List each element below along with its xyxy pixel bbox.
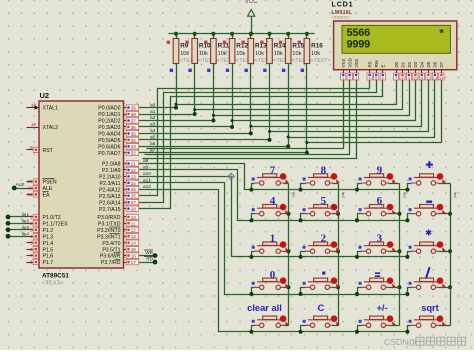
svg-text:P1.1/T2EX: P1.1/T2EX [43,221,69,227]
svg-text:3: 3 [377,233,383,245]
lcd pin stubs and numbers [341,70,444,81]
wire net a2 [137,32,410,123]
svg-text:P3.6/WR: P3.6/WR [100,254,121,260]
svg-text:P2.7/A15: P2.7/A15 [99,207,120,213]
wire net lcd RS (P2.5) [137,81,370,196]
push button 6 (row 2 col 3) [355,195,400,222]
svg-text:1: 1 [342,76,344,80]
svg-text:VDD: VDD [348,58,353,67]
wire net lcd VEE [143,81,357,159]
svg-text:a12: a12 [143,184,151,190]
wire net a3 [137,32,416,129]
svg-text:P0.3/AD3: P0.3/AD3 [98,125,120,131]
svg-text:D6: D6 [433,61,438,67]
resistor R9 [167,39,200,73]
svg-text:PSEN: PSEN [43,180,57,186]
svg-text:11: 11 [131,221,136,226]
svg-text:27: 27 [131,200,137,205]
svg-text:P1.3: P1.3 [43,234,54,240]
svg-text:36: 36 [131,125,137,130]
lcd LCD1 LM016L [332,0,457,70]
svg-text:RST: RST [43,148,54,154]
push button slash (row 4 col 4) [405,267,450,296]
wire net a7 [137,32,442,155]
wire net a4 [137,32,422,136]
svg-text:10k: 10k [199,51,208,57]
svg-text:22: 22 [131,168,137,173]
resistor R14 [260,39,293,73]
svg-text:lie2: lie2 [341,192,345,198]
svg-text:a2: a2 [150,115,156,121]
resistor R10 [185,39,218,73]
svg-text:VEE: VEE [354,59,359,68]
svg-text:3: 3 [30,227,33,232]
svg-text:P1.4: P1.4 [43,241,54,247]
svg-text:11: 11 [420,76,424,80]
svg-text:16: 16 [131,254,137,259]
resistor R15 [279,39,312,73]
svg-text:26: 26 [131,194,137,199]
wire net lie3 [6,225,30,232]
lcd pin names [341,58,444,67]
svg-text:8: 8 [401,76,403,80]
wire keypad column rail lie1 [287,184,296,326]
U2 left pin stubs and numbers [27,103,40,265]
svg-text:D0: D0 [394,61,399,67]
svg-text:P3.4/T0: P3.4/T0 [102,241,120,247]
svg-text:33: 33 [131,144,137,149]
push button equals (row 4 col 3) [355,273,400,296]
svg-text:a3: a3 [150,122,156,128]
wire net lcd RW (P2.6) [137,81,377,203]
svg-text:5: 5 [321,195,327,207]
U2 right pin stubs and numbers [124,105,139,265]
svg-text:5: 5 [375,76,377,80]
wire keypad column rail lie2 [336,184,345,326]
U2 left pin names [43,106,69,266]
svg-text:30: 30 [27,186,33,191]
svg-text:17: 17 [131,260,137,265]
svg-text:10: 10 [413,76,417,80]
svg-text:10k: 10k [311,51,320,57]
svg-text:R16: R16 [311,43,323,50]
svg-text:P2.5/A13: P2.5/A13 [99,194,120,200]
svg-text:lie4: lie4 [22,231,30,236]
svg-text:P0.5/AD5: P0.5/AD5 [98,138,120,144]
svg-text:5566: 5566 [346,28,370,40]
VCC power symbol [245,0,258,36]
push button 7 (row 1 col 1) [249,165,289,192]
svg-text:D7: D7 [439,61,444,67]
svg-text:10k: 10k [255,51,264,57]
svg-text:32: 32 [131,151,137,156]
svg-text:D3: D3 [413,61,418,67]
svg-text:10: 10 [131,215,137,220]
svg-text:23: 23 [131,174,137,179]
svg-text:a10: a10 [143,171,151,177]
wire net a10 (keypad row 3) [137,171,408,256]
svg-text:P2.0/A8: P2.0/A8 [102,162,121,168]
wire net RD [137,256,158,264]
svg-text:RD: RD [146,257,153,262]
wire net lcd VDD [145,81,350,155]
svg-text:P3.7/RD: P3.7/RD [101,260,121,266]
svg-text:6: 6 [382,76,384,80]
wire net a1 [137,32,403,116]
push button plus (row 1 col 4) [405,161,450,192]
push button sqrt (row 5 col 4) [405,303,450,334]
svg-text:P0.1/AD1: P0.1/AD1 [98,112,120,118]
push button clear-all (row 5 col 1) [247,303,289,334]
svg-text:EA: EA [43,193,50,199]
svg-text:14: 14 [131,241,137,246]
wire net lcd VSS [147,81,344,149]
svg-text:D4: D4 [420,61,425,67]
svg-text:14: 14 [439,76,443,80]
svg-text:a6: a6 [150,141,156,147]
wire net a11 (keypad row 4) [137,178,408,295]
svg-text:24: 24 [131,181,137,186]
svg-text:18: 18 [31,122,37,127]
svg-text:10k: 10k [236,51,245,57]
svg-text:8: 8 [321,165,327,177]
resistor R16 [298,39,331,73]
wire net a8 (keypad row 1) [137,158,408,189]
svg-text:5: 5 [30,240,33,245]
watermark [384,337,466,347]
svg-text:ALE: ALE [16,182,25,188]
svg-text:a8: a8 [143,158,149,164]
svg-text:a11: a11 [143,178,151,184]
wire net a0 [137,32,397,110]
svg-text:35: 35 [131,131,137,136]
svg-text:P2.2/A10: P2.2/A10 [99,175,120,181]
VCC bus wire [169,33,315,35]
svg-text:a0: a0 [150,102,156,108]
svg-text:lie4: lie4 [453,192,457,198]
wire net lcd E (P2.7) [137,81,383,209]
svg-text:P0.4/AD4: P0.4/AD4 [98,132,120,138]
svg-text:P1.5: P1.5 [43,247,54,253]
svg-text:7: 7 [30,253,33,258]
svg-text:a5: a5 [150,135,156,141]
svg-text:25: 25 [131,187,137,192]
svg-text:CSDN: CSDN [384,337,408,347]
svg-text:3: 3 [355,76,357,80]
svg-text:4: 4 [270,195,276,207]
push button 8 (row 1 col 2) [299,165,340,192]
svg-text:U2: U2 [40,91,50,100]
svg-text:34: 34 [131,138,137,143]
svg-text:38: 38 [131,112,137,117]
svg-text:*: * [438,29,445,41]
svg-text:P0.7/AD7: P0.7/AD7 [98,151,120,157]
wire net a12 (keypad row 5) [137,184,408,332]
wire net ALE [12,182,27,190]
svg-text:13: 13 [131,234,137,239]
push button 3 (row 3 col 3) [355,233,400,259]
svg-text:P1.0/T2: P1.0/T2 [43,215,61,221]
svg-text:9999: 9999 [346,39,370,51]
svg-text:LM016L: LM016L [332,10,353,16]
svg-text:2: 2 [349,76,351,80]
svg-text:P2.1/A9: P2.1/A9 [102,168,121,174]
svg-text:VSS: VSS [341,59,346,68]
svg-text:37: 37 [131,118,137,123]
svg-text:9: 9 [408,76,410,80]
svg-text:D2: D2 [407,61,412,67]
svg-text:39: 39 [131,106,137,111]
svg-text:7: 7 [270,165,276,177]
svg-text:lie1: lie1 [292,192,296,198]
push button C (row 5 col 2) [299,303,340,334]
push button star (row 3 col 4) [405,230,450,259]
svg-text:clear all: clear all [247,303,282,313]
mcu U2 AT89C51 [39,91,124,287]
svg-text:12: 12 [426,76,430,80]
svg-text:C: C [318,303,325,313]
svg-text:ALE: ALE [43,186,53,192]
svg-text:P1.2: P1.2 [43,228,54,234]
svg-text:29: 29 [27,179,33,184]
wire keypad column rail lie3 [397,184,406,326]
svg-text:13: 13 [433,76,437,80]
node junction marker [228,173,235,180]
push button 0 (row 4 col 1) [249,269,289,296]
svg-text:D5: D5 [426,61,431,67]
svg-text:E: E [381,65,386,68]
svg-text:RW: RW [374,59,379,67]
svg-text:VCC: VCC [245,0,258,5]
svg-text:P2.6/A14: P2.6/A14 [99,200,120,206]
svg-text:6: 6 [30,247,33,252]
svg-text:a4: a4 [150,128,156,134]
svg-text:P0.0/AD0: P0.0/AD0 [98,106,120,112]
svg-text:a1: a1 [150,109,156,115]
svg-text:P3.5/T1: P3.5/T1 [102,247,120,253]
push button 4 (row 2 col 1) [249,195,289,222]
wire net a5 [137,32,429,142]
svg-text:9: 9 [30,145,33,150]
wire keypad column rail lie4 [448,184,457,326]
svg-text:<TEXT>: <TEXT> [42,281,64,287]
svg-text:@: @ [408,338,416,347]
wire net a9 (keypad row 2) [137,165,408,221]
resistor R11 [204,39,237,73]
wire net a6 [137,32,435,149]
wire net lie4 [6,231,30,238]
svg-text:WR: WR [145,250,153,255]
svg-text:lie2: lie2 [22,219,30,224]
svg-text:RS: RS [367,61,372,67]
svg-text:10k: 10k [218,51,227,57]
svg-text:8: 8 [30,260,33,265]
svg-text:P3.3/INT1: P3.3/INT1 [97,234,120,240]
wire net lie1 [6,212,30,219]
push button 2 (row 3 col 2) [299,233,340,259]
svg-text:lie3: lie3 [403,192,407,198]
svg-text:2: 2 [321,233,327,245]
svg-text:D1: D1 [400,61,405,67]
svg-text:P2.3/A11: P2.3/A11 [100,181,121,187]
svg-text:a9: a9 [143,165,149,171]
push button plus-minus (row 5 col 3) [355,303,400,334]
svg-text:4: 4 [369,76,371,80]
svg-text:sqrt: sqrt [421,303,439,313]
push button 9 (row 1 col 3) [355,165,400,192]
wire net WR [137,250,158,258]
svg-text:12: 12 [131,228,137,233]
svg-text:10k: 10k [292,51,301,57]
svg-text:AT89C51: AT89C51 [42,273,69,280]
svg-text:28: 28 [131,207,137,212]
svg-text:7: 7 [395,76,397,80]
svg-text:<TEXT>: <TEXT> [311,58,330,64]
svg-text:9: 9 [377,165,383,177]
U2 right pin names [97,106,121,266]
svg-text:15: 15 [131,247,137,252]
svg-text:6: 6 [377,195,383,207]
svg-text:31: 31 [27,192,33,197]
svg-text:P3.1/TXD: P3.1/TXD [98,221,121,227]
svg-text:1: 1 [30,215,33,220]
svg-text:P1.7: P1.7 [43,260,54,266]
svg-text:XTAL2: XTAL2 [43,125,59,131]
svg-text:P1.6: P1.6 [43,254,54,260]
svg-text:P0.6/AD6: P0.6/AD6 [98,144,120,150]
svg-text:P3.0/RXD: P3.0/RXD [97,215,120,221]
svg-text:10k: 10k [274,51,283,57]
svg-text:21: 21 [131,161,137,166]
svg-text:LCD1: LCD1 [332,0,354,9]
svg-text:1: 1 [270,233,276,245]
svg-text:XTAL1: XTAL1 [43,106,59,112]
resistor R12 [223,39,256,73]
svg-text:2: 2 [30,221,33,226]
svg-text:+/-: +/- [376,303,387,313]
svg-text:P3.2/INT0: P3.2/INT0 [97,228,120,234]
resistor R13 [242,39,275,73]
svg-text:0: 0 [270,269,276,281]
svg-text:P2.4/A12: P2.4/A12 [99,187,120,193]
push button dot (row 4 col 2) [299,272,340,297]
push button minus (row 2 col 4) [405,201,450,223]
svg-text:10k: 10k [180,51,189,57]
push button 1 (row 3 col 1) [249,233,289,259]
svg-text:4: 4 [30,234,33,239]
svg-text:P0.2/AD2: P0.2/AD2 [98,119,120,125]
wire net lie2 [6,219,30,226]
push button 5 (row 2 col 2) [299,195,340,222]
